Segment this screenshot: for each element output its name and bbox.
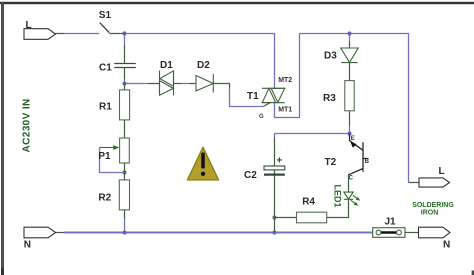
svg-text:R4: R4 <box>302 197 315 208</box>
svg-text:L: L <box>439 166 445 177</box>
svg-text:N: N <box>24 240 31 251</box>
svg-text:D3: D3 <box>324 51 337 62</box>
svg-text:P1: P1 <box>98 151 111 162</box>
svg-text:D2: D2 <box>197 60 210 71</box>
svg-text:C: C <box>349 176 354 182</box>
svg-text:R1: R1 <box>99 102 112 113</box>
svg-text:MT2: MT2 <box>278 77 292 84</box>
svg-text:C1: C1 <box>99 63 112 74</box>
svg-text:D1: D1 <box>160 60 173 71</box>
svg-text:B: B <box>365 159 370 165</box>
svg-text:LED1: LED1 <box>333 185 343 208</box>
svg-text:MT1: MT1 <box>278 107 292 114</box>
svg-text:L: L <box>26 20 32 31</box>
svg-text:AC230V IN: AC230V IN <box>22 98 33 152</box>
svg-text:R2: R2 <box>98 193 111 204</box>
svg-text:SOLDERING: SOLDERING <box>412 202 454 209</box>
svg-text:IRON: IRON <box>421 210 439 217</box>
svg-text:R3: R3 <box>323 93 336 104</box>
svg-text:J1: J1 <box>385 217 397 228</box>
svg-text:C2: C2 <box>244 170 257 181</box>
svg-text:S1: S1 <box>99 10 112 21</box>
svg-text:G: G <box>259 114 264 120</box>
svg-text:T1: T1 <box>247 91 259 102</box>
svg-text:T2: T2 <box>325 157 337 168</box>
svg-text:N: N <box>443 240 450 251</box>
svg-text:E: E <box>351 136 355 142</box>
svg-text:+: + <box>277 156 283 167</box>
